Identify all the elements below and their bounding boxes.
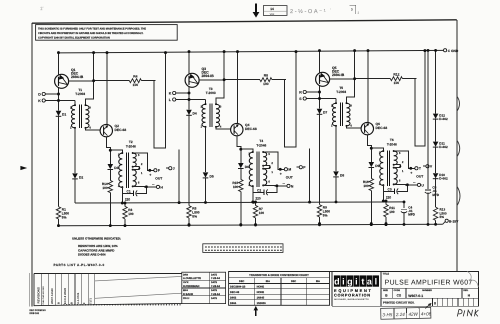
svg-text:REV.: REV. (463, 289, 468, 292)
wire: R14 to -15V rail (109, 193, 111, 226)
wire: C3 junction down to common output rail (382, 191, 384, 201)
svg-text:D2: D2 (79, 175, 83, 179)
diode D5 (D-664) (203, 172, 209, 177)
wire: T2 pins 2-1 link (133, 167, 140, 170)
svg-text:D-662: D-662 (439, 145, 448, 149)
svg-text:14: 14 (270, 7, 274, 11)
svg-text:CODE: CODE (394, 289, 401, 292)
wire: D9 to R16 (370, 168, 372, 179)
amplifier section 2 (169, 50, 307, 226)
wire: Q1 emitter down past input taps (58, 88, 60, 110)
svg-text:DATE: DATE (211, 289, 218, 292)
svg-text:C1: C1 (127, 189, 131, 193)
svg-text:DIODES ARE D-664: DIODES ARE D-664 (78, 253, 106, 257)
svg-text:W607 A1049: W607 A1049 (51, 288, 54, 304)
svg-text:MAYNARD, MASSACHUSETTS: MAYNARD, MASSACHUSETTS (334, 298, 369, 301)
wire: R13 to -15V rail (435, 220, 437, 224)
terminal B -15V (445, 219, 448, 222)
wire: Q5 base to GND rail and T-2003 pin 3 (330, 51, 355, 103)
svg-text:A.OUELLETTE: A.OUELLETTE (183, 277, 201, 280)
wire: R12 down to GND link (415, 51, 425, 146)
svg-text:220: 220 (125, 197, 131, 201)
wire: R11 to -15V rail (385, 217, 387, 224)
svg-text:d: d (334, 277, 340, 287)
svg-text:ECO-8 W628: ECO-8 W628 (64, 288, 67, 304)
wire: C4 to -15V rail (403, 212, 405, 224)
wire: output return to common rail (section 2) (178, 149, 180, 202)
svg-text:l: l (375, 277, 378, 287)
amplifier section 3 (299, 49, 433, 225)
wire: C5 branch from GND rail (427, 50, 429, 188)
svg-text:R12: R12 (393, 73, 399, 77)
wire: D4 cathode down to R5 (188, 115, 190, 206)
wire: R7 to -15V rail (255, 218, 257, 225)
svg-text:+: + (410, 171, 412, 175)
svg-text:D-662: D-662 (439, 117, 448, 121)
svg-text:DEC2894-1B: DEC2894-1B (230, 286, 246, 289)
svg-text:i: i (355, 277, 358, 287)
svg-text:EIA: EIA (316, 280, 320, 283)
svg-text:42W: 42W (408, 312, 418, 317)
svg-text:F: F (158, 169, 160, 173)
transformer T2 T-2046 (118, 140, 143, 188)
wire: R9 to -15V rail (319, 217, 321, 224)
wire: Q4 emitter to D6 and T4 pin 3 (237, 136, 253, 152)
transistor & diode conversion chart (229, 272, 330, 306)
wire: T4 pin 6 to output terminal N (263, 184, 287, 187)
svg-text:NONE: NONE (257, 286, 265, 289)
svg-text:2.24: 2.24 (395, 312, 405, 317)
svg-text:MFD: MFD (408, 213, 415, 217)
wire: C2 junction down to common output rail (252, 192, 254, 202)
svg-text:100: 100 (389, 210, 395, 214)
wire: D8 to common output rail (335, 177, 337, 201)
svg-text:100: 100 (233, 185, 239, 189)
wire: T4 pin 5 to output terminal M (263, 152, 284, 169)
svg-text:T-2003: T-2003 (336, 90, 346, 94)
border frame top (32, 20, 457, 23)
stamp: down arrow (255, 4, 257, 14)
wire: Q3 emitter down past input taps (188, 87, 190, 109)
svg-text:R8: R8 (264, 74, 268, 78)
wire: T2 pin 5 to output terminal F (133, 153, 154, 170)
svg-text:ENG: ENG (183, 289, 188, 292)
svg-text:4+06: 4+06 (421, 311, 432, 316)
svg-text:OUT: OUT (155, 177, 162, 181)
svg-text:D6: D6 (245, 165, 249, 169)
wire: clamp diode branch from GND rail (435, 50, 437, 113)
svg-text:DRB 102: DRB 102 (30, 312, 40, 315)
svg-text:7-28-64: 7-28-64 (211, 285, 220, 288)
svg-text:T-2046: T-2046 (387, 142, 397, 146)
svg-text:220: 220 (255, 196, 261, 200)
capacitor C4 .01 MFD (403, 202, 405, 208)
transformer T6 T-2046 (379, 138, 404, 186)
wire: Q5 emitter down past input taps (319, 86, 321, 108)
arrow below conversion chart (255, 309, 257, 316)
wire: Q6 collector to GND rail (367, 51, 369, 123)
transistor Q1 (DEC 2894-1B) (55, 74, 69, 88)
svg-text:REVISIONS: REVISIONS (37, 287, 41, 303)
transformer T3 T-2003 (201, 87, 222, 129)
svg-text:T-2046: T-2046 (256, 143, 266, 147)
resistor R9 L500 5% (317, 205, 321, 217)
svg-text:THIS SCHEMATIC IS FURNISHED ON: THIS SCHEMATIC IS FURNISHED ONLY FOR TES… (38, 27, 146, 30)
junction dots right column (427, 49, 430, 52)
svg-text:A-1-0724: A-1-0724 (77, 292, 80, 304)
output terminal U (-) (413, 181, 416, 183)
capacitor C2 220 (253, 186, 264, 192)
output terminal J (166, 167, 169, 169)
diode D10 D-662 (433, 173, 439, 178)
svg-text:100: 100 (133, 83, 139, 87)
svg-text:RESISTORS ARE 1/4W, 10%: RESISTORS ARE 1/4W, 10% (78, 244, 118, 248)
wire: D1 cathode down to R1 (58, 116, 60, 207)
resistor R5 L500 5% (187, 206, 191, 218)
svg-text:100: 100 (102, 186, 108, 190)
svg-text:CS: CS (397, 294, 401, 298)
svg-text:TITLE: TITLE (383, 272, 390, 275)
diode D6 (D-664) (240, 149, 242, 163)
wire: D6 to R15 (240, 169, 242, 180)
svg-text:OUT: OUT (416, 175, 423, 179)
diode D11 D-662 (433, 142, 439, 147)
resistor R1 L500 5% (56, 207, 60, 219)
svg-text:D-662: D-662 (439, 177, 448, 181)
svg-text:7-28-64: 7-28-64 (211, 277, 220, 280)
svg-text:CIRCUITS ARE PROPRIETARY IN NA: CIRCUITS ARE PROPRIETARY IN NATURE AND S… (38, 32, 144, 35)
wire: T1 pin 1 down to D2 (74, 128, 76, 173)
resistor R13 L500 5% (433, 207, 437, 220)
wire: Q3 collector to GND rail (188, 52, 190, 74)
svg-text:DATE: DATE (211, 281, 218, 284)
junction dots section 1 (57, 51, 60, 54)
svg-text:VDE: VDE (270, 13, 275, 16)
title block (229, 271, 479, 306)
wire: T3 pin 1 down to D5 (205, 127, 207, 172)
svg-text:D4: D4 (193, 111, 197, 115)
svg-text:DATE: DATE (211, 273, 218, 276)
svg-text:1′: 1′ (40, 6, 44, 11)
resistor R15 100 (239, 179, 243, 191)
svg-text:DEC-68: DEC-68 (245, 127, 257, 131)
wire: Q1 base to GND rail and T-2003 pin 3 (69, 53, 94, 105)
wire: Q2 emitter to D3 and T2 pin 3 (107, 137, 123, 153)
wire: B -15V supply rail (59, 224, 443, 225)
wire: R3 to -15V rail (124, 219, 126, 226)
svg-text:D662: D662 (230, 296, 237, 299)
svg-text:PRINTED CIRCUIT REV.: PRINTED CIRCUIT REV. (383, 300, 415, 304)
wire: D12 to D11 (435, 119, 437, 142)
output terminal V (423, 165, 426, 167)
transformer T4 T-2046 (248, 139, 273, 187)
svg-text:DEC FORM NO: DEC FORM NO (30, 309, 47, 312)
diode D2 (D-664) (72, 173, 78, 178)
svg-text:100: 100 (394, 81, 400, 85)
capacitor C5 .01 MFD (425, 189, 431, 191)
svg-text:M: M (288, 168, 291, 172)
svg-text:DEC: DEC (239, 280, 244, 283)
svg-text:TRANSISTOR & DIODE CONVERSION: TRANSISTOR & DIODE CONVERSION CHART (249, 274, 309, 277)
svg-text:+: + (149, 173, 151, 177)
wire: R8 down to GND link (285, 52, 296, 147)
wire: T2 pin 6 to output terminal H (133, 185, 157, 188)
transistor Q3 (DEC 2894-1B) (185, 73, 199, 87)
diode D9 (D-664) (370, 148, 372, 162)
svg-text:100: 100 (363, 184, 369, 188)
svg-text:5%: 5% (440, 215, 445, 219)
revision table tick row (63, 304, 66, 305)
wire: R4 down to GND link (154, 53, 165, 148)
margin arrow left (20, 166, 27, 170)
border frame left (31, 23, 33, 306)
resistor R4 100 (94, 80, 130, 82)
svg-text:0: 0 (434, 302, 436, 306)
svg-text:C GND: C GND (448, 49, 459, 53)
transformer T5 T-2003 (331, 86, 352, 128)
wire: D5 to common output rail (205, 178, 207, 202)
revision table (34, 274, 182, 306)
svg-text:B: B (57, 302, 60, 304)
capacitor C3 220 (383, 185, 394, 191)
svg-text:NUMBER: NUMBER (422, 289, 432, 292)
wire: R16 to -15V rail (370, 191, 372, 224)
svg-text:H.PERRIMAN: H.PERRIMAN (183, 285, 200, 288)
svg-text:EIA: EIA (266, 280, 270, 283)
resistor R3 100 (124, 203, 126, 206)
svg-text:PROJ: PROJ (183, 297, 190, 300)
svg-text:J: J (173, 167, 175, 171)
svg-text:D9: D9 (375, 164, 379, 168)
paper edge wave (467, 271, 478, 287)
svg-text:3·H5: 3·H5 (382, 312, 393, 317)
transistor Q2 (DEC-68) (100, 124, 112, 136)
paper wrinkles right edge (457, 96, 460, 112)
wire: T1 pin 4 to Q2 base (86, 128, 101, 130)
wire: Q6 emitter to D9 and T6 pin 3 (368, 135, 384, 151)
svg-text:DRN: DRN (183, 273, 188, 276)
svg-text:i: i (342, 277, 345, 287)
svg-text:100: 100 (128, 212, 134, 216)
svg-text:100: 100 (259, 211, 265, 215)
diode D3 (D-664) (109, 150, 111, 164)
diode D8 (D-664) (333, 171, 339, 176)
wire: T5 pin 1 down to D8 (335, 126, 337, 171)
wire: D11 to D10 (435, 147, 437, 174)
svg-text:CAPACITORS ARE MMFD: CAPACITORS ARE MMFD (78, 248, 115, 252)
svg-text:g: g (347, 277, 353, 287)
handwritten date boxes (381, 307, 432, 319)
dotted component strip (203, 244, 283, 253)
transformer T1 T-2003 (70, 88, 91, 130)
svg-text:5%: 5% (62, 215, 67, 219)
junction dots section 2 (188, 50, 191, 53)
output terminal P (297, 166, 300, 168)
wire: R1 to -15V rail (58, 219, 60, 226)
svg-text:5%: 5% (192, 214, 197, 218)
output terminal N (-) (283, 182, 286, 184)
svg-text:DATE: DATE (211, 297, 218, 300)
wire: T6 pins 2-1 link (394, 165, 401, 168)
svg-text:DEC-68: DEC-68 (115, 128, 127, 132)
resistor R7 100 (255, 202, 257, 205)
wire: D10 to R13 (435, 178, 437, 207)
wire: D2 to common output rail (74, 179, 76, 203)
svg-text:t: t (361, 277, 364, 287)
svg-text:100: 100 (263, 82, 269, 86)
svg-text:220: 220 (386, 195, 392, 199)
sign-off block (182, 272, 226, 303)
terminal C GND (444, 49, 447, 52)
diode D4 (D-664) (186, 110, 192, 115)
svg-text:D5: D5 (210, 174, 214, 178)
handwritten PINK (457, 310, 478, 317)
wire: T3 pin 4 to Q4 base (216, 127, 231, 129)
wire: Q2 collector to GND rail (106, 53, 108, 125)
wire: D7 cathode down to R9 (319, 114, 321, 205)
svg-text:PULSE AMPLIFIER W607: PULSE AMPLIFIER W607 (385, 279, 473, 286)
wire: T4 pins 2-1 link (263, 166, 270, 169)
svg-text:+: + (280, 172, 282, 176)
svg-text:D7: D7 (323, 110, 327, 114)
svg-text:T-2003: T-2003 (206, 91, 216, 95)
capacitor C1 220 (122, 187, 133, 193)
wire: C5 to -15V rail (427, 193, 429, 225)
svg-text:OUT: OUT (286, 176, 293, 180)
transistor Q4 (DEC-68) (231, 123, 243, 135)
junction dots output rail (204, 201, 207, 204)
wire: Q1 collector to GND rail (58, 53, 60, 75)
svg-text:2894-IB: 2894-IB (202, 74, 215, 78)
wire: common output return rail (75, 202, 404, 203)
wire: R5 to -15V rail (188, 218, 190, 225)
wire: D3 to R14 (109, 170, 111, 181)
svg-text:UNLESS OTHERWISE INDICATED:: UNLESS OTHERWISE INDICATED: (72, 237, 121, 241)
svg-text:D3: D3 (114, 166, 118, 170)
svg-text:D664: D664 (230, 302, 237, 305)
svg-text:D8: D8 (340, 173, 344, 177)
svg-text:CH'K: CH'K (183, 281, 189, 284)
resistor R11 100 (385, 201, 387, 204)
notice box (36, 25, 178, 41)
svg-text:CHK CHG NO REV: CHK CHG NO REV (42, 286, 45, 305)
svg-text:DEC-68: DEC-68 (376, 126, 388, 130)
svg-text:NONE: NONE (257, 291, 265, 294)
output terminal H (-) (152, 183, 155, 185)
svg-text:C3: C3 (388, 187, 392, 191)
svg-text:7-28-64: 7-28-64 (211, 293, 220, 296)
svg-text:T-2003: T-2003 (75, 92, 85, 96)
border frame right (456, 20, 458, 271)
svg-text:1N3606: 1N3606 (257, 302, 267, 305)
svg-text:B: B (70, 302, 73, 304)
diode D1 (D-664) (56, 111, 62, 116)
svg-text:MFD: MFD (432, 193, 439, 197)
svg-text:W607-0-1: W607-0-1 (408, 294, 423, 298)
wire: Q5 collector to GND rail (319, 51, 321, 73)
svg-text:DEC-68: DEC-68 (230, 291, 240, 294)
transistor Q6 (DEC-68) (361, 122, 373, 134)
svg-text:R4: R4 (133, 75, 137, 79)
stamp: corner mark 3 (350, 5, 356, 14)
resistor R8 100 (224, 79, 260, 81)
svg-text:B-15V: B-15V (449, 219, 459, 223)
svg-text:SIZE: SIZE (383, 289, 388, 292)
svg-text:T-2046: T-2046 (126, 144, 136, 148)
svg-text:DEC: DEC (291, 280, 296, 283)
svg-text:R BAHR: R BAHR (183, 293, 193, 296)
svg-text:2894-IB: 2894-IB (71, 75, 84, 79)
resistor R12 100 (355, 78, 391, 80)
diode D7 (D-664) (317, 109, 323, 114)
svg-text:D1: D1 (62, 112, 66, 116)
digital logo (331, 271, 333, 306)
svg-text:2-½-OA⁻¹: 2-½-OA⁻¹ (290, 9, 327, 15)
svg-text:2894-IB: 2894-IB (332, 73, 345, 77)
svg-text:5%: 5% (323, 213, 328, 217)
wire: R15 to -15V rail (240, 192, 242, 225)
resistor R16 100 (369, 178, 373, 190)
junction dots section 3 (318, 49, 321, 52)
svg-text:1N645: 1N645 (257, 296, 265, 299)
stamp: inspection box 14 (263, 6, 287, 16)
svg-text:7171: 7171 (90, 298, 93, 304)
wire: T6 pin 5 to output terminal T (394, 151, 415, 168)
svg-text:CORPORATION: CORPORATION (334, 293, 371, 298)
diode D12 D-662 (433, 114, 439, 119)
wire: C1 junction down to common output rail (121, 193, 123, 203)
wire: T6 pin 6 to output terminal U (394, 183, 418, 186)
wire: T5 pin 4 to Q6 base (347, 126, 362, 128)
transistor Q5 (DEC 2894-1B) (316, 72, 330, 86)
wire: output return to common rail (section 3) (309, 148, 311, 201)
svg-text:COPYRIGHT 1964 BY DIGITAL EQUI: COPYRIGHT 1964 BY DIGITAL EQUIPMENT CORP… (38, 36, 110, 39)
svg-text:C2: C2 (257, 188, 261, 192)
svg-text:PARTS LIST A-PL-W607-0-0: PARTS LIST A-PL-W607-0-0 (54, 263, 105, 267)
resistor R14 100 (108, 180, 112, 192)
wire: Q4 collector to GND rail (237, 52, 239, 124)
wire: Q3 base to GND rail and T-2003 pin 3 (199, 52, 224, 104)
wire: GND rail (59, 50, 444, 53)
amplifier section 1 (38, 51, 175, 227)
